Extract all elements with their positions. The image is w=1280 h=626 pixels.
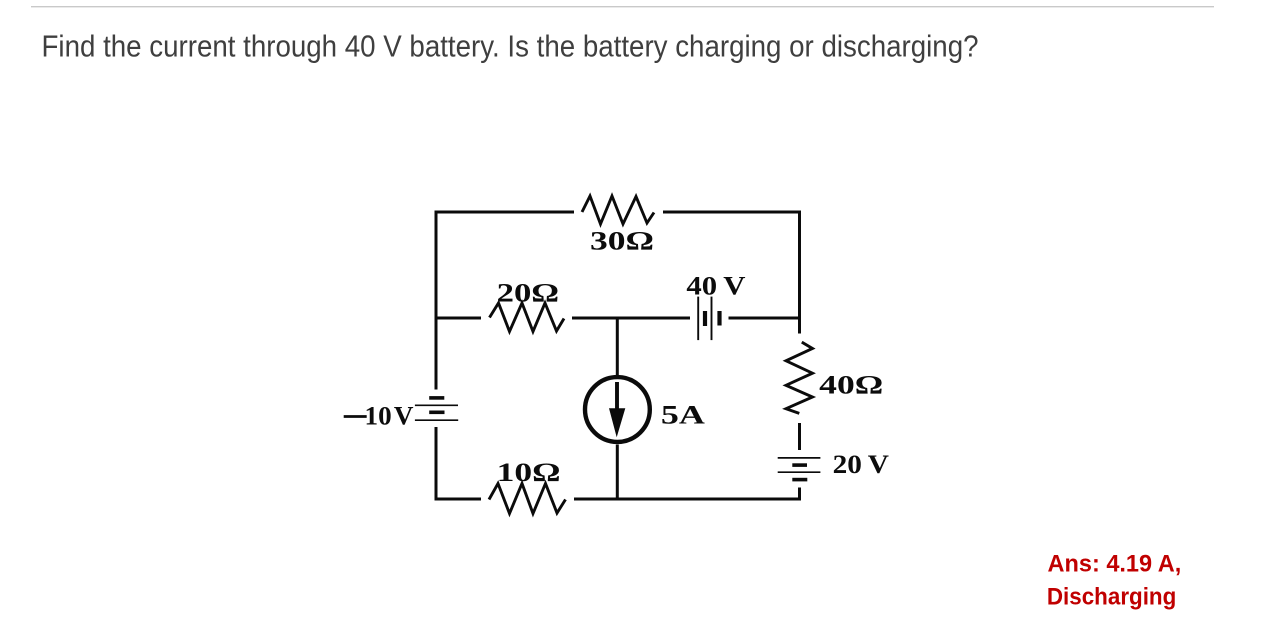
- svg-text:20Ω: 20Ω: [497, 277, 559, 307]
- svg-text:10 V: 10 V: [365, 401, 414, 431]
- svg-text:40Ω: 40Ω: [819, 370, 883, 400]
- svg-text:Ans: 4.19 A,: Ans: 4.19 A,: [1048, 551, 1182, 578]
- current source arrow shaft: [615, 382, 619, 412]
- svg-text:Discharging: Discharging: [1047, 584, 1176, 611]
- battery 10V plates: [415, 398, 458, 420]
- battery 20V plates: [778, 458, 821, 480]
- svg-text:Find the current through 40 V: Find the current through 40 V battery. I…: [42, 28, 979, 63]
- current source arrow head: [609, 408, 625, 437]
- svg-text:10Ω: 10Ω: [497, 457, 561, 487]
- wire: bottom-right corner up to 20V battery: [574, 488, 800, 500]
- current source I=5A circle: [585, 377, 650, 442]
- wire: top-left segment and left branch upper segment: [436, 212, 574, 390]
- wire: current source top lead: [616, 318, 619, 376]
- svg-text:30Ω: 30Ω: [590, 226, 654, 256]
- wire: top-right segment and right branch upper segment: [663, 212, 800, 334]
- resistor 20ohm zigzag: [490, 303, 565, 332]
- svg-text:40 V: 40 V: [686, 271, 745, 301]
- battery 40V plates: [698, 297, 719, 341]
- wire: current source bottom lead: [616, 445, 619, 500]
- wire: stub between 40ohm resistor and 20V battery: [798, 423, 801, 450]
- wire: middle-left stub from node at left branch: [436, 317, 481, 320]
- wire: bottom-left segment and left branch lower segment: [436, 427, 481, 499]
- wire: middle segment between 20ohm resistor and 40V battery: [572, 317, 690, 320]
- label dash before 10V: [344, 415, 367, 418]
- svg-text:5A: 5A: [661, 400, 706, 430]
- svg-text:20 V: 20 V: [833, 449, 889, 479]
- resistor 30ohm zigzag: [582, 196, 654, 224]
- resistor 40ohm vertical zigzag: [786, 342, 813, 413]
- resistor 10ohm zigzag: [489, 484, 566, 514]
- wire: middle-right segment from 40V battery to right branch: [729, 317, 800, 320]
